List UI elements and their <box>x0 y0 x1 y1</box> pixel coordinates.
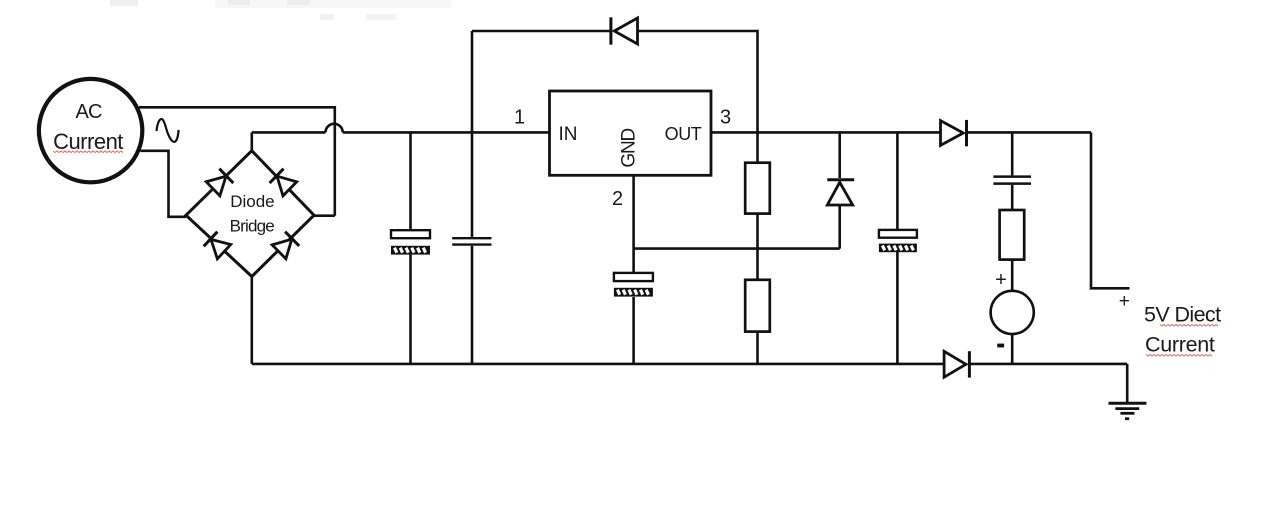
capacitor C1 plate bottom hatched <box>391 246 430 255</box>
capacitor C1 plate top <box>391 230 430 238</box>
capacitor C2 branch vertical <box>471 31 474 364</box>
capacitor C4 branch wires <box>896 132 899 364</box>
capacitor C4 plate top <box>879 230 917 238</box>
svg-text:5V Diect: 5V Diect <box>1144 303 1221 327</box>
resistor chain wires at x=757.5 <box>756 132 759 364</box>
source B1 circle <box>991 291 1034 334</box>
bridge diode D2 (top-right, points to top vertex) <box>270 169 297 196</box>
capacitor C3 plate bottom hatched <box>614 288 653 297</box>
capacitor C1 branch wires <box>409 132 412 364</box>
diode D8 symbol (points up) <box>827 180 854 205</box>
bridge label <box>230 192 275 236</box>
wire main rail to regulator IN <box>343 131 550 134</box>
svg-text:IN: IN <box>559 124 578 145</box>
rail OUT to diode D6 <box>711 131 941 134</box>
wire lower from AC to bridge left <box>141 151 187 217</box>
resistor R2 <box>745 280 770 332</box>
minus label of source B1 <box>997 344 1004 348</box>
wire vertical right of bridge <box>333 106 336 216</box>
bridge diode D4 (bottom-right, points to right vertex) <box>272 232 299 259</box>
right output leg <box>1091 132 1130 288</box>
wire top from AC to vertical <box>139 106 335 109</box>
wire main rail left of hop <box>252 131 326 134</box>
svg-text:Current: Current <box>1145 333 1215 357</box>
svg-text:AC: AC <box>76 101 103 123</box>
bridge diode D1 (top-left, points to top vertex) <box>206 169 233 196</box>
top feedback loop wire left <box>472 30 610 33</box>
wire GND node to zener <box>634 247 840 250</box>
top feedback loop wire right <box>638 31 758 132</box>
bottom rail right of D7 <box>969 363 1127 366</box>
diode D7 on bottom rail (points right) <box>944 351 969 377</box>
svg-text:Bridge: Bridge <box>230 217 275 236</box>
svg-text:Diode: Diode <box>230 192 274 211</box>
bridge bottom leg wire <box>251 277 254 364</box>
bridge diode D3 (bottom-left, points to left vertex) <box>204 232 231 259</box>
svg-text:OUT: OUT <box>665 124 702 144</box>
ground symbol <box>1109 403 1147 419</box>
capacitor C4 plate bottom hatched <box>879 244 917 253</box>
wire bridge top stub <box>251 132 254 150</box>
diode D8 (zener branch) wires <box>838 132 841 248</box>
GND pin wire <box>632 175 635 364</box>
wire hop over vertical <box>326 124 343 133</box>
resistor R1 <box>745 163 770 214</box>
capacitor C5 plates <box>993 177 1031 184</box>
regulator U1 box <box>550 91 712 175</box>
diode D6 on top rail (points right) <box>941 120 967 146</box>
squiggle under Diect <box>1160 325 1218 327</box>
capacitor C3 plate top <box>614 273 653 281</box>
resistor R3 <box>1000 210 1025 260</box>
svg-text:2: 2 <box>612 188 623 210</box>
AC source circle V1 <box>39 79 142 182</box>
svg-text:GND: GND <box>618 129 639 168</box>
svg-text:+: + <box>995 269 1007 291</box>
svg-text:3: 3 <box>720 107 731 129</box>
spellcheck squiggle under Current <box>53 151 123 153</box>
bottom rail left of D7 <box>252 363 944 366</box>
squiggle under right Current <box>1146 355 1212 357</box>
sine symbol <box>157 119 179 142</box>
capacitor C2 plates <box>452 238 491 244</box>
rail D6 to right corner <box>967 131 1092 134</box>
faint top smudges <box>110 0 451 20</box>
diode D5 on top loop (points left) <box>611 17 638 44</box>
svg-text:+: + <box>1119 291 1130 312</box>
output branch wires at x=1012 <box>1011 132 1014 364</box>
svg-text:1: 1 <box>514 107 525 129</box>
diode bridge diamond <box>186 151 314 277</box>
wire bridge right vertex to vertical <box>314 214 335 217</box>
ground leg wire <box>1126 364 1129 402</box>
svg-text:Current: Current <box>53 129 123 154</box>
output text <box>1144 303 1221 357</box>
regulator labels <box>559 124 702 168</box>
